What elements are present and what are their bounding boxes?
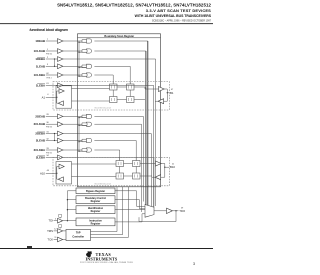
junction dots on control rows — [54, 58, 55, 59]
svg-text:34: 34 — [46, 155, 49, 157]
channel 2 B output driver — [156, 161, 162, 166]
svg-text:1CLKBA: 1CLKBA — [34, 73, 45, 77]
wire gate output 1OEAB — [94, 40, 147, 42]
gate 1CLKBA — [87, 73, 92, 77]
wire input 2OEAB — [46, 115, 58, 117]
svg-text:functional block diagram: functional block diagram — [30, 28, 68, 32]
svg-text:28: 28 — [46, 114, 49, 116]
TAP controller output wires — [91, 231, 118, 233]
pullup on TMS — [59, 225, 62, 228]
wire output 1CLKBA — [63, 74, 82, 76]
svg-text:TDO: TDO — [179, 209, 186, 213]
svg-text:Bypass Register: Bypass Register — [86, 190, 105, 193]
svg-text:1LEAB: 1LEAB — [36, 64, 45, 68]
wire gate output 1CLKBA — [94, 74, 113, 76]
channel 1 B input driver — [158, 99, 164, 104]
svg-text:B1: B1 — [170, 91, 174, 95]
svg-text:A1: A1 — [42, 95, 46, 99]
svg-text:62: 62 — [46, 73, 49, 75]
Bypass Register box — [76, 188, 115, 194]
ti emblem — [86, 251, 92, 257]
Identification Register box — [76, 206, 115, 214]
pullup on TDI — [59, 214, 62, 217]
wire output 1OEBA — [63, 58, 156, 60]
wire output 1LEAB — [63, 65, 82, 67]
wire output 2LEAB — [63, 140, 82, 142]
svg-text:1LEBA: 1LEBA — [36, 83, 45, 87]
svg-text:Register: Register — [91, 222, 101, 225]
wire output 1LEBA — [63, 84, 154, 86]
wire input 2CLKAB — [46, 123, 58, 125]
wire drop 1LEBA — [153, 85, 155, 207]
gate 2CLKBA — [87, 148, 92, 152]
wire output 2CLKAB — [63, 123, 82, 125]
boundary-scan register title underline — [78, 37, 161, 39]
svg-text:30: 30 — [46, 122, 49, 124]
svg-text:12: 12 — [54, 229, 57, 231]
svg-text:32: 32 — [46, 138, 49, 140]
svg-text:TMS: TMS — [47, 229, 53, 233]
wire input 1LEBA — [46, 84, 58, 86]
svg-text:Controller: Controller — [72, 235, 84, 238]
wires channel 1 internal — [72, 88, 110, 90]
channel 1 scan cell feed stubs — [112, 82, 114, 85]
svg-text:Register: Register — [91, 210, 101, 213]
svg-text:1OEBA: 1OEBA — [35, 57, 45, 61]
Boundary-Control Register box — [76, 196, 115, 204]
footer left mark — [27, 246, 33, 248]
header rule — [0, 22, 213, 25]
wire mux to TDO buffer — [154, 210, 167, 212]
svg-text:5: 5 — [55, 218, 57, 220]
wire input 1OEAB — [46, 40, 58, 42]
channel 2 scan cell squares — [116, 161, 124, 167]
footer rule — [0, 247, 213, 250]
wire output 2OEBA — [63, 133, 151, 135]
svg-text:Next Bit/Channel: Next Bit/Channel — [95, 106, 112, 109]
wire input 2LEBA — [46, 156, 58, 158]
channel 1 dashed box (one of nine channels) — [53, 82, 169, 111]
wire identification register to mux — [115, 209, 145, 211]
wire drop 2LEBA — [153, 157, 155, 207]
wire drop 2LEAB — [135, 141, 137, 161]
svg-text:2OEAB: 2OEAB — [35, 114, 45, 118]
svg-text:TDI: TDI — [48, 219, 53, 223]
channel 1 B output driver — [159, 87, 165, 92]
svg-text:1CLKAB: 1CLKAB — [34, 49, 45, 53]
gate 2LEAB — [87, 138, 92, 142]
wire output 2LEBA — [63, 156, 154, 158]
svg-text:47: 47 — [171, 89, 174, 91]
wire A10 pin — [46, 172, 57, 174]
svg-text:SCBS318C – APRIL 1996 – REVISE: SCBS318C – APRIL 1996 – REVISED OCTOBER … — [152, 20, 212, 23]
wire drop 2CLKBA — [119, 150, 121, 161]
wire input 2CLKBA — [46, 149, 58, 151]
wire output 1CLKAB — [63, 50, 82, 52]
A10 input driver — [58, 177, 63, 182]
wires channel 2 internal — [72, 163, 117, 165]
gate 1LEAB — [87, 64, 92, 68]
svg-text:2: 2 — [47, 57, 49, 59]
channel 2 dashed box (one of nine channels) — [53, 157, 169, 186]
wire TDO output — [173, 210, 179, 212]
wire boundary-control register to mux — [115, 199, 140, 201]
output mux — [145, 205, 154, 218]
wire TDI to registers — [63, 220, 76, 222]
svg-text:11: 11 — [54, 237, 57, 239]
page number — [193, 262, 195, 266]
gate feed vertical section 2 — [78, 118, 80, 152]
svg-text:Next Bit/Channel: Next Bit/Channel — [95, 182, 112, 185]
wire gate output 2OEAB — [94, 115, 143, 117]
wire output 2OEAB — [63, 115, 82, 117]
svg-text:33: 33 — [46, 148, 49, 150]
wire A1 pin — [46, 96, 57, 98]
channel 2 B input driver — [155, 175, 161, 180]
svg-text:SN54LVTH18512, SN54LVTH182512,: SN54LVTH18512, SN54LVTH182512, SN74LVTH1… — [57, 3, 211, 8]
TAP controller box — [66, 230, 91, 241]
wire A1 node — [56, 91, 58, 103]
wire input 1OEBA — [46, 58, 58, 60]
wire TMS to TAP — [63, 230, 66, 232]
Instruction Register box — [76, 218, 115, 226]
svg-text:3.3-V ABT SCAN TEST DEVICES: 3.3-V ABT SCAN TEST DEVICES — [146, 8, 211, 13]
svg-text:PRE 35: PRE 35 — [46, 153, 52, 155]
wire drop 1OEAB — [147, 41, 149, 214]
wire drop 1OEBA — [155, 59, 157, 206]
A10 port cell box — [56, 162, 72, 184]
wire A10 node — [56, 167, 58, 180]
wire input 1CLKBA — [46, 74, 58, 76]
svg-text:TAP: TAP — [76, 232, 81, 235]
wire gate output 1CLKAB — [94, 50, 145, 52]
wire TCK to TAP — [63, 239, 66, 241]
svg-text:31: 31 — [46, 131, 49, 133]
A1 input driver — [58, 101, 63, 106]
wire drop 1CLKBA — [112, 75, 114, 84]
svg-text:3: 3 — [47, 64, 49, 66]
gate 2CLKAB — [87, 122, 92, 126]
A1 port cell box — [56, 86, 72, 108]
wire B1 node — [164, 88, 167, 90]
svg-text:TCK: TCK — [47, 238, 53, 242]
wire drop 2CLKAB — [141, 124, 143, 212]
wire output 2CLKBA — [63, 149, 82, 151]
svg-text:PRE 64: PRE 64 — [46, 54, 52, 56]
svg-text:1OEAB: 1OEAB — [35, 39, 45, 43]
svg-text:44: 44 — [47, 170, 50, 172]
svg-text:Boundary-Scan Register: Boundary-Scan Register — [104, 34, 134, 38]
wire gate output 2CLKAB — [94, 123, 141, 125]
svg-text:INSTRUMENTS: INSTRUMENTS — [86, 257, 118, 262]
TI logo — [0, 251, 213, 267]
svg-text:2LEAB: 2LEAB — [36, 139, 45, 143]
svg-text:2OEBA: 2OEBA — [35, 132, 45, 136]
TDO output buffer — [167, 208, 173, 213]
wire drop 2OEBA — [150, 134, 152, 210]
svg-text:PRE 4: PRE 4 — [46, 78, 51, 80]
A1 output driver — [59, 89, 64, 94]
svg-text:2LEBA: 2LEBA — [36, 155, 45, 159]
wire input 2OEBA — [46, 133, 58, 135]
svg-text:PRE 36: PRE 36 — [46, 127, 52, 129]
wire input 1LEAB — [46, 65, 58, 67]
svg-text:7: 7 — [47, 39, 49, 41]
svg-text:2CLKBA: 2CLKBA — [34, 148, 45, 152]
wire gate output 2CLKBA — [94, 149, 119, 151]
wire input 2LEAB — [46, 140, 58, 142]
gate 1CLKAB — [87, 49, 92, 53]
svg-text:B10: B10 — [170, 165, 175, 169]
TDO feedback wire — [139, 221, 176, 223]
gate 1OEAB — [87, 39, 92, 43]
wire gate output 2LEAB — [94, 140, 136, 142]
svg-text:A10: A10 — [40, 171, 45, 175]
wire instruction register to mux — [115, 221, 142, 223]
svg-text:1: 1 — [47, 49, 49, 51]
gate 2OEAB — [87, 114, 92, 118]
svg-text:Register: Register — [91, 200, 101, 203]
wire B10 node — [161, 163, 165, 165]
wire output 1OEAB — [63, 40, 82, 42]
wire bypass register to mux — [115, 190, 137, 192]
channel 2 scan cell feed stubs — [119, 157, 121, 160]
svg-text:61: 61 — [46, 83, 49, 85]
svg-text:2CLKAB: 2CLKAB — [34, 122, 45, 126]
A10 output driver — [59, 164, 64, 169]
svg-text:4: 4 — [47, 94, 49, 96]
wire drop 1CLKAB — [145, 51, 147, 216]
footer address — [0, 262, 213, 264]
wire input 1CLKAB — [46, 50, 58, 52]
wire drop 2OEAB — [142, 116, 144, 201]
svg-text:WITH 18-BIT UNIVERSAL BUS TRAN: WITH 18-BIT UNIVERSAL BUS TRANSCEIVERS — [135, 14, 212, 18]
wire drop 1LEAB — [129, 66, 131, 84]
gate feed vertical section 1 — [78, 42, 80, 76]
boundary-scan register box — [78, 34, 161, 187]
wire gate output 1LEAB — [94, 65, 130, 67]
channel 1 scan cell squares — [110, 84, 118, 90]
